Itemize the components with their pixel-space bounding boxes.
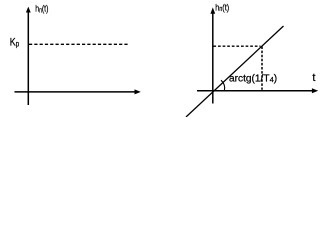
- right horizontal axis (t-axis): [197, 88, 318, 93]
- angle arc: [221, 80, 225, 90]
- svg-text:hп(t): hп(t): [215, 2, 229, 13]
- right dashed horizontal projection: [213, 45, 260, 47]
- right dashed vertical projection: [261, 47, 263, 90]
- left horizontal axis (t-axis): [15, 89, 141, 94]
- ramp diagonal line: [186, 26, 284, 117]
- svg-text:hп(t): hп(t): [35, 4, 48, 15]
- right vertical axis (h-axis): [210, 7, 215, 103]
- left vertical axis (h-axis): [26, 7, 31, 105]
- left dashed level line at Kp: [29, 43, 128, 45]
- svg-text:Kp: Kp: [10, 37, 20, 49]
- svg-text:arctg(1/T4): arctg(1/T4): [229, 74, 277, 85]
- svg-text:t: t: [312, 72, 315, 84]
